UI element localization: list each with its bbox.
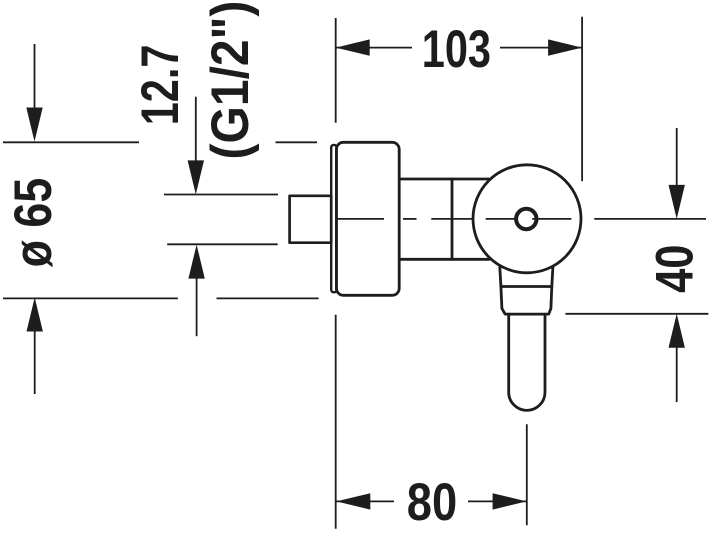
lever handle: [509, 314, 545, 410]
arrow 12.7 down: [188, 160, 204, 194]
centerline horizontal seg5: [532, 218, 571, 220]
centerline horizontal seg3: [431, 218, 473, 220]
svg-text:80: 80: [407, 473, 457, 532]
arrow 40 down: [669, 185, 685, 219]
dim o65 upper stem: [34, 44, 36, 110]
dim 80 line left segment: [336, 500, 394, 502]
arrow 12.7 up: [188, 245, 204, 279]
dim 80 line right segment: [468, 500, 527, 502]
svg-text:ø 65: ø 65: [4, 178, 63, 268]
centerline horizontal seg2: [403, 218, 417, 220]
svg-text:40: 40: [646, 245, 705, 293]
arrow 103 left: [336, 39, 370, 55]
svg-text:(G1/2"): (G1/2"): [201, 1, 260, 160]
dim 40 solid line at centerline: [594, 218, 706, 220]
dim 12.7 upper stem: [195, 97, 197, 164]
hub small circle: [516, 209, 536, 229]
dim o65 lower stem: [34, 330, 36, 394]
dim o65 upper extension line seg2: [276, 141, 318, 143]
dim 40 upper stem: [676, 128, 678, 186]
body bottom edge: [399, 258, 489, 261]
spigot G1/2 connector: [290, 196, 332, 243]
dim o65 lower extension line seg2: [217, 297, 319, 299]
neck joint line: [501, 285, 552, 288]
collar: [501, 287, 552, 315]
svg-text:103: 103: [422, 20, 491, 79]
dim 12.7 lower stem: [196, 276, 198, 336]
arrow o65 up: [27, 298, 43, 332]
arrow 80 left: [336, 493, 370, 509]
dim o65 upper extension line seg1: [3, 141, 139, 143]
centerline horizontal seg4: [486, 218, 515, 220]
body top edge: [399, 178, 489, 181]
dim 40 lower extension line: [565, 313, 708, 315]
neck left side: [500, 267, 501, 287]
body joint line: [451, 179, 454, 259]
dim 103 left extension line: [335, 18, 337, 123]
dim 80 right extension line: [526, 424, 528, 525]
arrow 40 up: [669, 314, 685, 348]
flange rosette: [336, 142, 399, 295]
dim 80 left extension line: [335, 315, 337, 529]
svg-text:12.7: 12.7: [131, 45, 190, 126]
dim 40 lower stem: [676, 346, 678, 402]
dim 12.7 upper extension line: [164, 194, 278, 196]
arrow 80 right: [493, 493, 527, 509]
arrow o65 down: [26, 108, 42, 142]
dim o65 lower extension line seg1: [3, 297, 178, 299]
dim 103 line left segment: [336, 47, 412, 49]
valve circle: [473, 165, 581, 273]
arrow 103 right: [548, 39, 582, 55]
centerline horizontal seg1: [337, 218, 384, 220]
dim 12.7 lower extension line: [167, 243, 278, 245]
wall plate behind flange: [331, 145, 336, 292]
neck right side: [552, 267, 553, 287]
dim 103 right extension line: [581, 17, 583, 181]
dim 103 line right segment: [500, 47, 582, 49]
